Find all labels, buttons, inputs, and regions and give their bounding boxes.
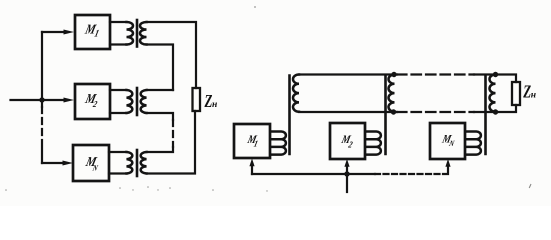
box MN (left circuit) xyxy=(73,145,109,181)
wire: bottom rail solid to load xyxy=(474,105,516,112)
svg-text:н: н xyxy=(531,91,536,101)
wire: M1 stem from bus xyxy=(251,165,253,174)
arrow into M2 xyxy=(64,98,75,103)
wire: T1 secondary bottom down to T2 top xyxy=(147,45,174,91)
label MN (right circuit) xyxy=(440,133,453,146)
wire: M2 to T2 primary bottom xyxy=(110,112,127,114)
T3 secondary winding xyxy=(141,152,147,173)
T2 core xyxy=(136,88,139,115)
wire: T2 secondary top to T1 bottom xyxy=(147,89,174,91)
wire: M1 to T1 primary top xyxy=(110,21,127,23)
wire: branch to MN xyxy=(42,162,66,164)
wire: bus corner up to MN xyxy=(443,166,448,174)
T1 core (right circuit) xyxy=(288,76,291,155)
arrow up into M1 (right) xyxy=(249,159,254,167)
scan speckles xyxy=(5,6,531,192)
arrow up into M2 (right) xyxy=(344,159,349,167)
node: T2 secondary to bottom rail xyxy=(391,109,396,114)
TN secondary winding (right circuit) xyxy=(490,75,496,112)
wire: T1 secondary top to load top rail xyxy=(147,22,197,88)
T3 primary winding xyxy=(127,152,133,173)
T1 secondary winding (right circuit) xyxy=(293,75,299,112)
box M2 (left circuit) xyxy=(75,84,110,119)
node: TN secondary to top rail xyxy=(493,72,498,77)
node: T2 secondary to top rail xyxy=(391,72,396,77)
T3 core xyxy=(136,150,139,176)
node: input junction xyxy=(39,97,44,102)
TN primary winding (right circuit) xyxy=(466,132,481,155)
label MN (left circuit) xyxy=(84,154,99,169)
label M2 (left circuit) xyxy=(83,91,98,106)
box M1 (right circuit) xyxy=(234,124,270,158)
wire: input horizontal xyxy=(11,99,43,101)
T2 secondary winding xyxy=(141,90,147,113)
wire: branch to M1 xyxy=(42,31,67,33)
wire: bottom input bus solid xyxy=(252,173,375,175)
T2 secondary winding (right circuit) xyxy=(389,75,395,112)
wire: branch to M2 xyxy=(42,99,67,101)
node: bus junction at M2 xyxy=(344,171,349,176)
wire: M1 to T1 primary bottom xyxy=(110,43,127,45)
node: TN secondary to bottom rail xyxy=(493,109,498,114)
wire: top rail solid T1-T2 xyxy=(299,73,397,75)
wire: M2 stem and input from below xyxy=(346,166,348,192)
arrow into M1 xyxy=(64,30,75,35)
T2 primary winding (right circuit) xyxy=(366,132,381,155)
wire: T3 secondary bottom to load bottom xyxy=(147,111,196,174)
wire: MN to T3 primary bottom xyxy=(109,172,127,174)
T1 secondary winding xyxy=(140,22,147,45)
svg-text:н: н xyxy=(212,100,217,110)
wire: solid stub to T3 top xyxy=(147,147,174,152)
T2 primary winding xyxy=(127,90,133,113)
wire: top rail solid to load xyxy=(474,75,516,83)
box M1 (left circuit) xyxy=(75,15,110,49)
wire: vertical junction to top branch xyxy=(41,32,43,100)
wire: dashed series link T2 to T3 xyxy=(172,120,174,147)
wire: MN to T3 primary top xyxy=(109,151,127,153)
box MN (right circuit) xyxy=(430,123,465,159)
T1 core xyxy=(136,20,139,47)
arrow up into MN (right) xyxy=(445,159,450,167)
T1 primary winding xyxy=(127,22,134,45)
label M2 (right circuit) xyxy=(339,133,352,146)
T2 core (right circuit) xyxy=(384,76,387,155)
T1 primary winding (right circuit) xyxy=(271,132,286,155)
wire: M2 to T2 primary top xyxy=(110,89,127,91)
arrow into MN xyxy=(63,161,74,166)
wire: bottom rail dashed T2-TN xyxy=(397,111,474,113)
box M2 (right circuit) xyxy=(330,123,365,159)
label M1 (left circuit) xyxy=(83,21,98,36)
load resistor ZH (left circuit) xyxy=(193,88,201,111)
wire: vertical below junction (solid stub) xyxy=(41,100,43,107)
TN core (right circuit) xyxy=(484,76,487,155)
label M1 (right circuit) xyxy=(245,133,258,146)
wire: dashed vertical continuation xyxy=(41,107,43,140)
wire: T2 secondary bottom, corner down xyxy=(147,113,174,120)
wire: vertical to bottom branch xyxy=(41,140,43,163)
load resistor ZH (right circuit) xyxy=(512,82,520,105)
wire: bottom rail solid T1-T2 xyxy=(299,111,397,113)
wire: top rail dashed T2-TN xyxy=(397,73,474,75)
wire: bottom input bus dashed xyxy=(375,173,443,175)
